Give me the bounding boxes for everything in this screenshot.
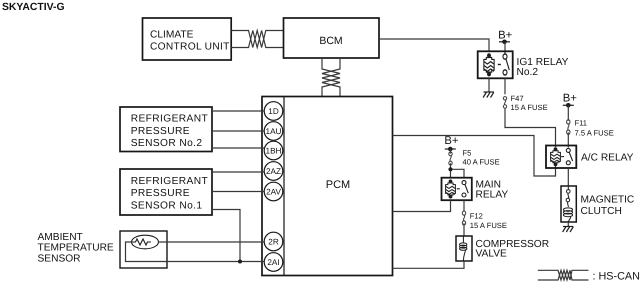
wire sensor No.1 to pin 2AV — [212, 191, 264, 193]
thermistor inside ambient sensor — [132, 235, 159, 249]
wire F47 to A/C relay coil — [505, 108, 556, 147]
wire sensor No.1 ground return to node 2AI — [212, 210, 240, 262]
wire thermistor return to pin 2AI — [126, 242, 265, 262]
refrigerant pressure sensor No.1 — [120, 169, 212, 215]
svg-text:MAGNETIC: MAGNETIC — [581, 195, 635, 206]
wire F11 to A/C relay switch — [567, 133, 569, 148]
wire PCM to A/C relay coil return — [393, 136, 556, 177]
svg-text:15 A FUSE: 15 A FUSE — [470, 221, 507, 230]
wire main relay coil to PCM — [393, 200, 451, 211]
PCM pin 2R — [264, 232, 283, 251]
wire sensor No.2 to pin 1BH — [212, 147, 264, 149]
wire B+ to fuse F11 — [567, 105, 569, 120]
wire main relay switch to fuse F12 — [463, 200, 465, 211]
refrigerant pressure sensor No.2 — [120, 107, 212, 152]
svg-text:IG1 RELAY: IG1 RELAY — [517, 57, 569, 68]
ground (magnetic clutch) — [563, 227, 574, 233]
svg-text:B+: B+ — [498, 29, 513, 41]
battery feed B+ (F5) — [444, 135, 459, 152]
svg-text:VALVE: VALVE — [476, 248, 508, 259]
battery feed B+ (IG1 relay) — [498, 29, 513, 44]
svg-text:1BH: 1BH — [266, 147, 282, 156]
BCM U-BCM — [284, 18, 380, 58]
wire IG1 switch to fuse F47 — [504, 78, 506, 94]
svg-text:40 A FUSE: 40 A FUSE — [463, 158, 500, 167]
PCM pin 1AU — [264, 122, 283, 141]
wire sensor No.2 to pin 1D — [212, 110, 264, 112]
svg-text:2R: 2R — [268, 238, 279, 247]
svg-text:: HS-CAN: : HS-CAN — [593, 271, 640, 283]
junction node F5 branch — [448, 167, 452, 171]
PCM pin 2AV — [264, 182, 283, 201]
PCM pin 1D — [264, 102, 283, 121]
wire F12 to compressor valve — [463, 223, 465, 236]
svg-text:1AU: 1AU — [266, 127, 282, 136]
svg-text:B+: B+ — [563, 92, 578, 104]
svg-text:BCM: BCM — [319, 35, 342, 47]
wire IG1 coil to ground — [488, 78, 490, 92]
PCM pin 1BH — [264, 141, 283, 160]
svg-text:F47: F47 — [511, 94, 524, 103]
svg-text:CLUTCH: CLUTCH — [581, 206, 622, 217]
svg-text:RELAY: RELAY — [476, 190, 509, 201]
ambient temperature sensor — [38, 231, 168, 268]
fuse F12 15 A — [462, 211, 507, 230]
junction node 2AI return — [238, 260, 242, 264]
svg-text:SKYACTIV-G: SKYACTIV-G — [2, 2, 65, 13]
fuse F5 40 A — [449, 149, 500, 167]
wire B+ to IG1 relay switch — [504, 42, 506, 55]
magnetic clutch L1 — [561, 186, 634, 222]
svg-text:SENSOR No.1: SENSOR No.1 — [131, 200, 203, 211]
fuse F11 7.5 A — [567, 119, 614, 138]
svg-text:AMBIENT: AMBIENT — [38, 232, 83, 243]
svg-text:MAIN: MAIN — [476, 179, 501, 190]
wire A/C relay switch to magnetic clutch — [567, 168, 569, 186]
svg-text:REFRIGERANT: REFRIGERANT — [131, 176, 208, 187]
svg-text:A/C RELAY: A/C RELAY — [581, 153, 634, 164]
svg-text:CONTROL UNIT: CONTROL UNIT — [150, 41, 230, 52]
wire thermistor to pin 2R — [158, 241, 264, 243]
relay K3 MAIN RELAY — [442, 178, 509, 201]
svg-text:F5: F5 — [463, 149, 472, 158]
svg-text:F11: F11 — [575, 119, 588, 128]
svg-text:SENSOR No.2: SENSOR No.2 — [131, 138, 203, 149]
svg-text:F12: F12 — [470, 212, 483, 221]
PCM pin 2AI — [264, 253, 283, 272]
wire F5 to main relay coil and switch — [451, 163, 465, 178]
svg-text:No.2: No.2 — [517, 67, 539, 78]
wire compressor valve to PCM — [393, 261, 465, 268]
relay K1 IG1 RELAY No.2 — [478, 51, 569, 78]
wire sensor No.1 to pin 2AZ — [212, 171, 264, 173]
svg-text:REFRIGERANT: REFRIGERANT — [131, 114, 208, 125]
battery feed B+ (F11) — [563, 92, 578, 107]
svg-text:15 A FUSE: 15 A FUSE — [511, 103, 548, 112]
wire BCM to PCM twisted pair (HS-CAN) — [322, 58, 340, 97]
wire B+ to fuse F5 — [450, 149, 452, 154]
svg-text:2AZ: 2AZ — [266, 167, 281, 176]
ground (IG1 relay coil) — [483, 92, 494, 98]
PCM pin 2AZ — [264, 162, 283, 181]
svg-text:TEMPERATURE: TEMPERATURE — [38, 243, 114, 254]
relay K2 A/C RELAY — [546, 146, 634, 169]
climate control unit box — [143, 18, 232, 60]
svg-text:PCM: PCM — [326, 179, 350, 191]
svg-text:PRESSURE: PRESSURE — [131, 188, 190, 199]
svg-text:1D: 1D — [268, 107, 279, 116]
svg-text:PRESSURE: PRESSURE — [131, 126, 190, 137]
wire magnetic clutch to ground — [567, 222, 569, 227]
PCM U-PCM — [262, 97, 393, 276]
wire sensor No.2 to pin 1AU — [212, 130, 264, 132]
svg-text:7.5 A FUSE: 7.5 A FUSE — [575, 129, 614, 138]
svg-text:CLIMATE: CLIMATE — [150, 29, 194, 40]
HS-CAN legend twisted pair — [538, 270, 589, 280]
wire CCU to BCM twisted pair (HS-CAN) — [231, 31, 283, 48]
compressor valve L2 — [456, 236, 549, 261]
svg-text:2AI: 2AI — [267, 258, 279, 267]
fuse F47 15 A — [503, 94, 547, 112]
svg-text:SENSOR: SENSOR — [38, 253, 81, 264]
wire BCM to IG1 relay coil — [379, 39, 489, 51]
svg-text:2AV: 2AV — [266, 188, 281, 197]
svg-text:B+: B+ — [444, 135, 459, 147]
